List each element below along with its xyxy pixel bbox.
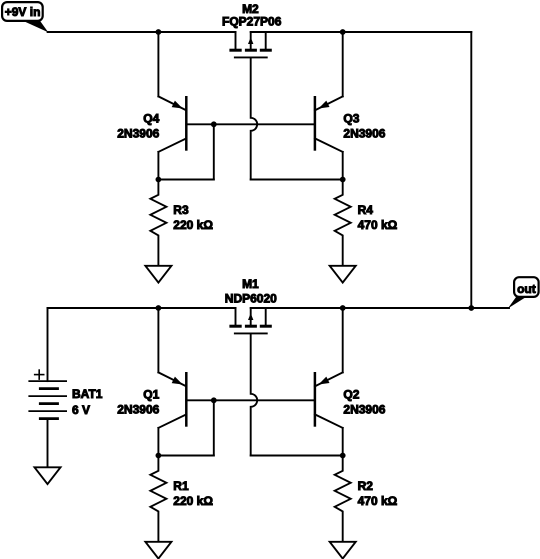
ground under R1 — [145, 542, 171, 559]
node Q3 collector junction — [340, 177, 346, 183]
transistor Q2 (PNP 2N3906) — [315, 308, 343, 456]
svg-text:2N3906: 2N3906 — [343, 402, 385, 416]
wire out stub — [471, 307, 509, 309]
label Q4 — [143, 112, 159, 126]
mosfet M1 (NDP6020) — [229, 308, 271, 333]
label R4 value 470 kOhm — [358, 218, 398, 232]
wire collector link left (bottom) — [158, 455, 213, 457]
transistor Q1 (PNP 2N3906) — [158, 308, 186, 456]
node junction mid rail / out — [468, 305, 474, 311]
ground under R3 — [145, 266, 171, 283]
transistor Q3 (PNP 2N3906) — [315, 32, 343, 180]
svg-text:Q2: Q2 — [343, 388, 359, 402]
label R2 value 470 kOhm — [358, 494, 398, 508]
label Q3 value 2N3906 — [343, 126, 385, 140]
wire mid rail right (M1 source to out) — [251, 307, 472, 309]
label R3 — [173, 203, 189, 217]
net flag out — [508, 277, 539, 308]
wire top rail right (M2 source to right) — [251, 31, 472, 33]
wire base junction down to collector link (bottom) — [213, 400, 215, 455]
wire Q4 base to Q3 base — [186, 123, 315, 125]
node Q4 collector junction — [156, 177, 162, 183]
label Q4 value 2N3906 — [117, 126, 159, 140]
svg-text:220 kΩ: 220 kΩ — [173, 218, 213, 232]
label FQP27P06 value — [222, 14, 282, 28]
label Q2 — [343, 388, 359, 402]
wire right vertical (top rail to out node) — [470, 32, 472, 308]
svg-text:R3: R3 — [173, 203, 189, 217]
label Q1 — [143, 388, 159, 402]
label 6 V value — [72, 403, 90, 417]
label Q3 — [343, 112, 359, 126]
ground under R2 — [330, 542, 356, 559]
ground under R4 — [330, 266, 356, 283]
svg-text:+9V in: +9V in — [5, 5, 41, 19]
wire M1 gate to Q2 collector node — [251, 455, 343, 457]
net flag +9V in — [2, 2, 48, 32]
svg-text:2N3906: 2N3906 — [343, 126, 385, 140]
label NDP6020 value — [225, 291, 277, 305]
label BAT1 — [72, 387, 103, 401]
label R3 value 220 kOhm — [173, 218, 213, 232]
wire M2 gate to Q3 collector node — [251, 179, 343, 181]
transistor Q4 (PNP 2N3906) — [158, 32, 186, 180]
svg-text:2N3906: 2N3906 — [117, 126, 159, 140]
node Q1 collector junction — [156, 453, 162, 459]
svg-text:FQP27P06: FQP27P06 — [222, 14, 282, 28]
svg-text:NDP6020: NDP6020 — [225, 291, 277, 305]
wire Q1 base to Q2 base — [186, 399, 315, 401]
label Q2 value 2N3906 — [343, 402, 385, 416]
svg-text:Q4: Q4 — [143, 112, 159, 126]
svg-text:R1: R1 — [173, 479, 189, 493]
label Q1 value 2N3906 — [117, 402, 159, 416]
svg-text:6 V: 6 V — [72, 403, 90, 417]
label R4 — [358, 203, 374, 217]
svg-text:470 kΩ: 470 kΩ — [358, 218, 398, 232]
svg-text:2N3906: 2N3906 — [117, 402, 159, 416]
svg-text:R4: R4 — [358, 203, 374, 217]
node junction base wire bottom — [211, 397, 217, 403]
svg-text:R2: R2 — [358, 479, 374, 493]
svg-text:Q1: Q1 — [143, 388, 159, 402]
battery plus sign — [35, 370, 44, 379]
label R1 value 220 kOhm — [173, 494, 213, 508]
wire top rail left (+9V to M2 drain) — [48, 31, 236, 33]
svg-text:220 kΩ: 220 kΩ — [173, 494, 213, 508]
svg-text:out: out — [517, 282, 536, 296]
svg-text:470 kΩ: 470 kΩ — [358, 494, 398, 508]
node junction mid rail / Q1 emitter — [156, 305, 162, 311]
node Q2 collector junction — [340, 453, 346, 459]
svg-text:BAT1: BAT1 — [72, 387, 103, 401]
wire M2 gate down with hop over base wire — [251, 57, 258, 179]
resistor R2 470k — [335, 456, 351, 542]
svg-text:Q3: Q3 — [343, 112, 359, 126]
wire M1 gate down with hop over base wire — [251, 333, 258, 455]
label R1 — [173, 479, 189, 493]
wire collector link left (top) — [158, 179, 213, 181]
node junction top rail / Q4 emitter — [156, 29, 162, 35]
resistor R4 470k — [335, 180, 351, 266]
wire mid rail left (battery to M1 drain) — [48, 307, 236, 309]
label M2 — [242, 2, 259, 16]
label R2 — [358, 479, 374, 493]
svg-text:M1: M1 — [242, 277, 259, 291]
label M1 — [242, 277, 259, 291]
wire base junction down to collector link (top) — [213, 124, 215, 179]
ground under battery — [35, 467, 61, 484]
mosfet M2 (FQP27P06) — [229, 32, 271, 57]
node junction mid rail / Q2 emitter — [340, 305, 346, 311]
resistor R1 220k — [150, 456, 166, 542]
battery BAT1 6V — [28, 308, 67, 467]
node junction base wire top — [211, 121, 217, 127]
resistor R3 220k — [150, 180, 166, 266]
node junction top rail / Q3 emitter — [340, 29, 346, 35]
